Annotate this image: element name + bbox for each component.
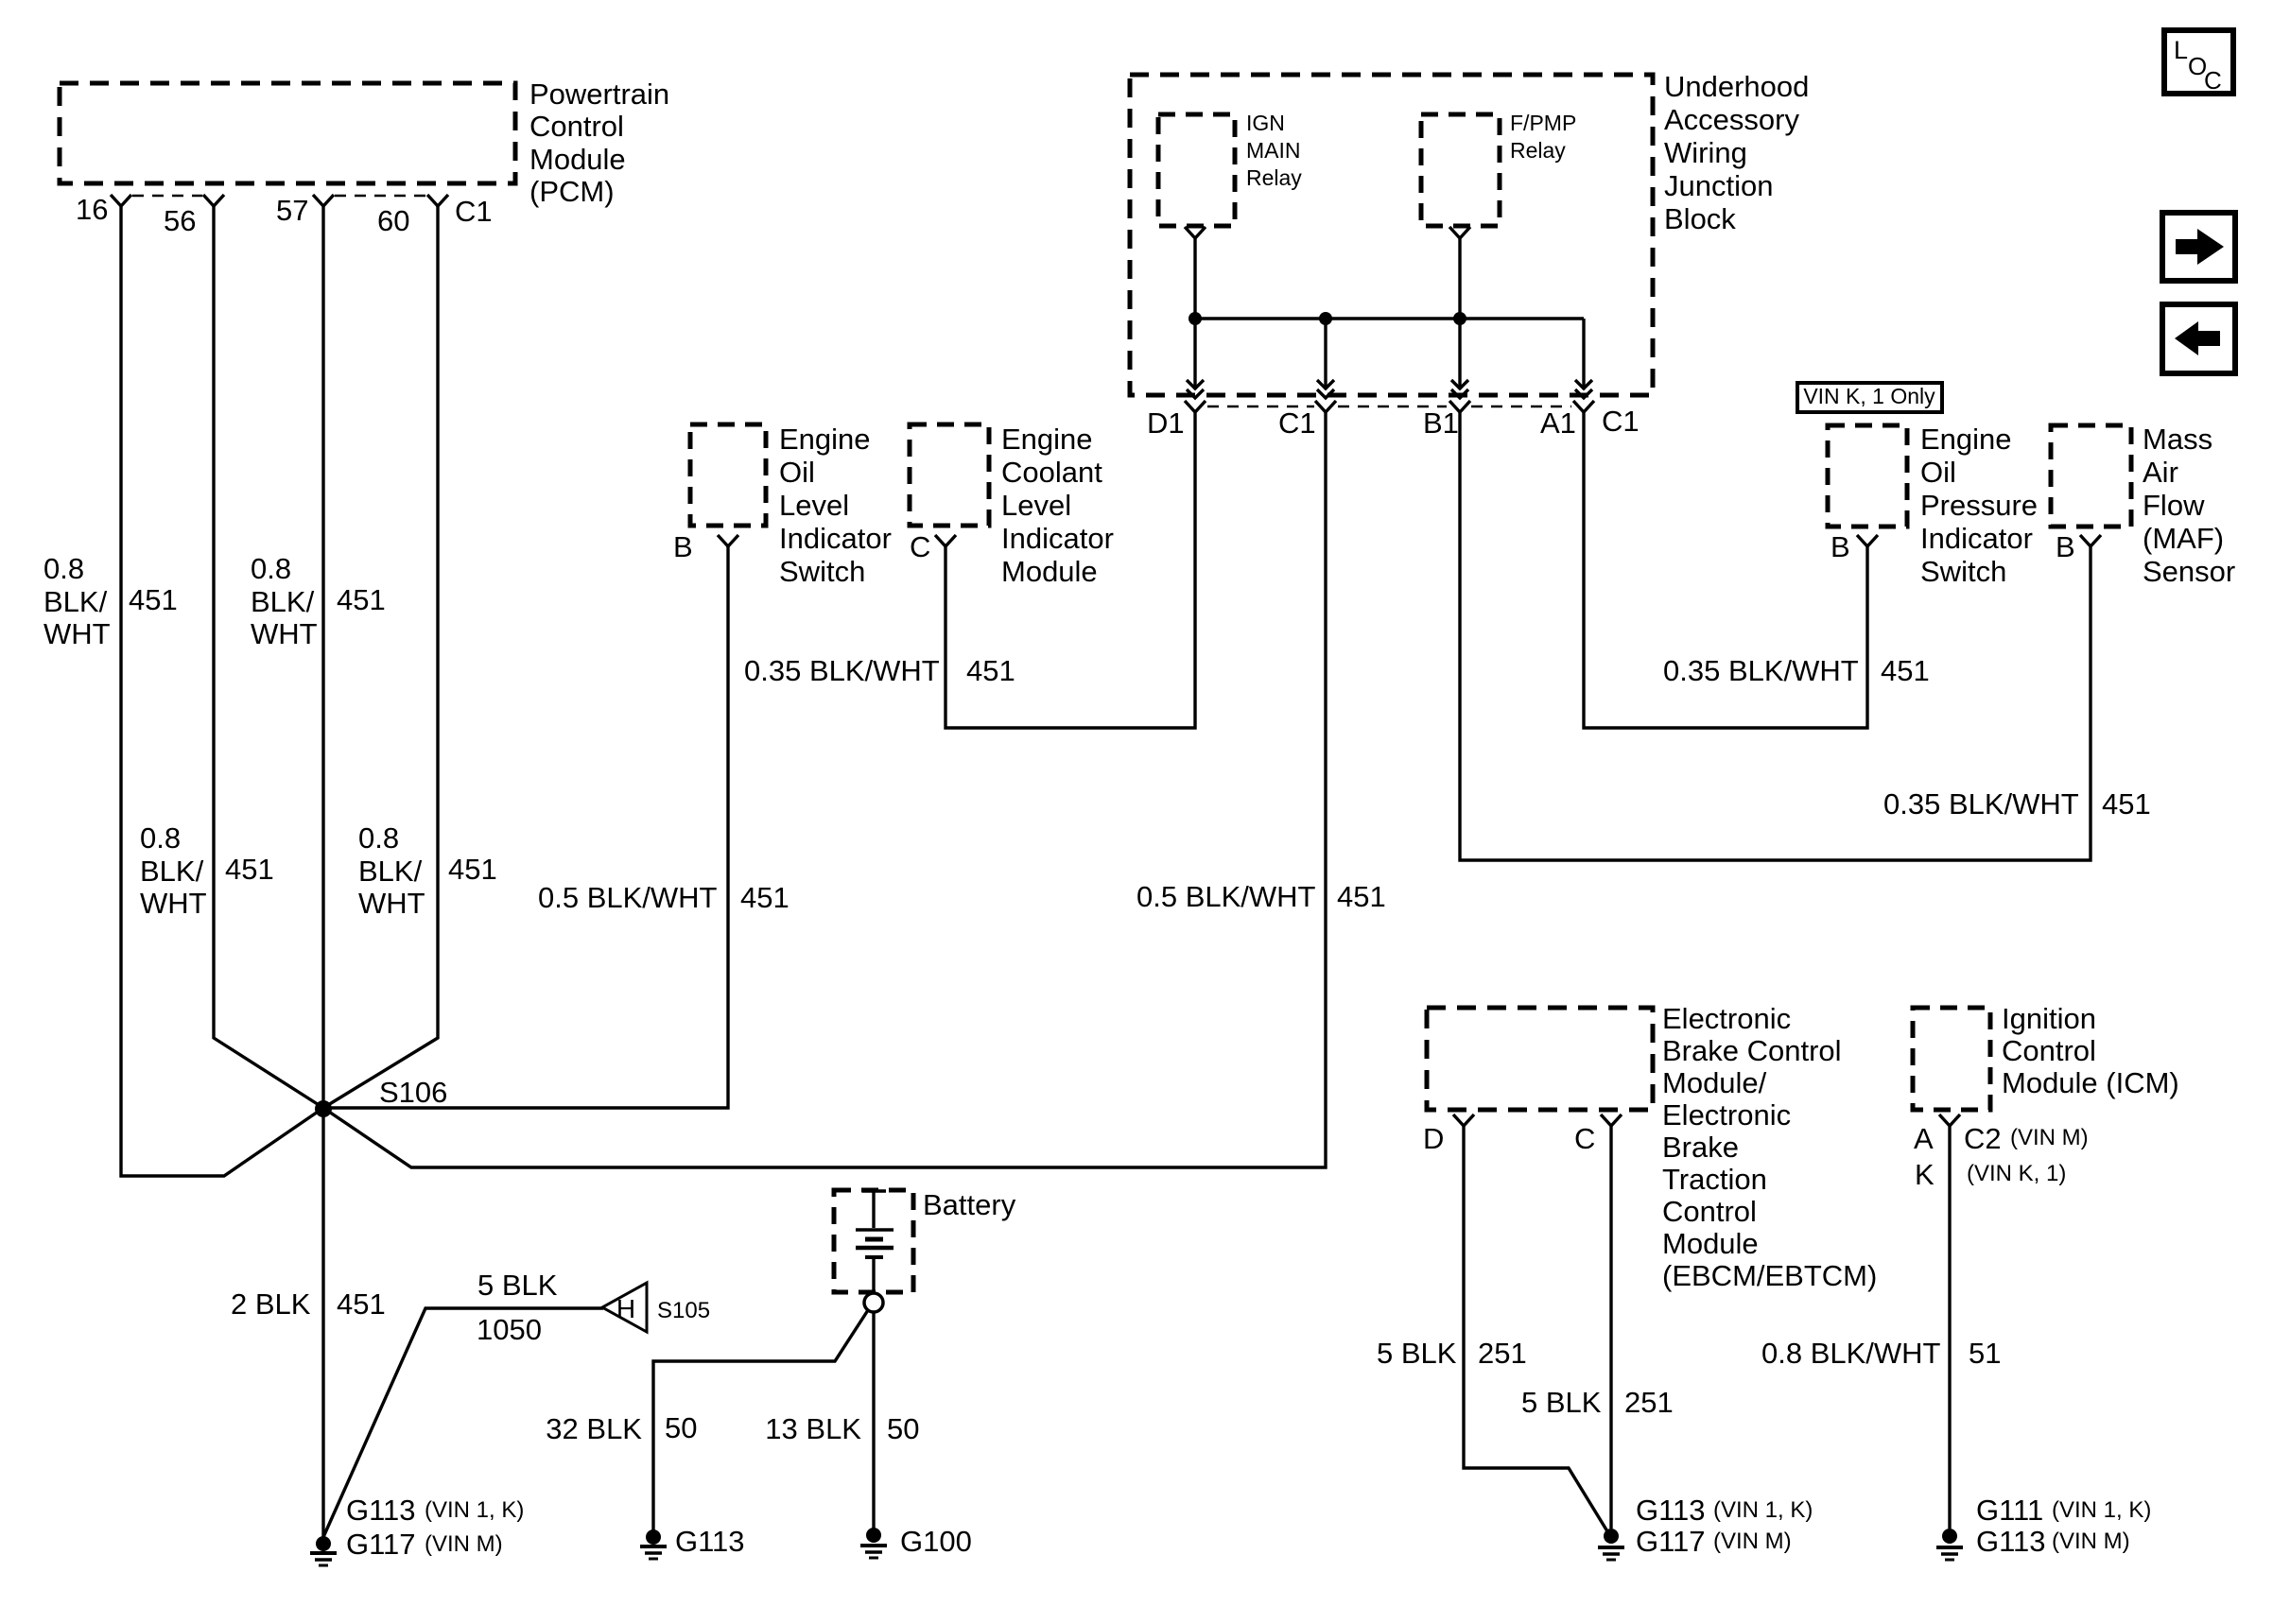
label UHJB name [1664, 70, 1809, 235]
pin C Y connector (coolant module) [935, 535, 956, 546]
label VIN K, 1 Only box [1797, 383, 1942, 412]
pin Y connector IGN MAIN relay [1185, 227, 1206, 238]
label Mass Air Flow (MAF) Sensor [2143, 423, 2235, 588]
wire label 0.8 BLK/WHT 51 (ICM) [1761, 1337, 2001, 1370]
wire label 5 BLK 251 (EBCM C) [1521, 1386, 1674, 1419]
wire battery negative to ground G113 (32 BLK 50) [653, 1310, 868, 1530]
svg-text:57: 57 [276, 194, 308, 227]
svg-text:5 BLK: 5 BLK [1521, 1386, 1602, 1419]
svg-text:BLK/: BLK/ [140, 855, 204, 888]
svg-text:0.8: 0.8 [140, 821, 181, 855]
svg-text:2 BLK: 2 BLK [231, 1287, 311, 1321]
svg-text:BLK/: BLK/ [251, 585, 315, 618]
svg-text:5 BLK: 5 BLK [477, 1269, 558, 1302]
wire S106 ground lead to S105 splice (5 BLK 1050) [323, 1308, 603, 1537]
svg-text:G113: G113 [1976, 1525, 2046, 1558]
svg-text:A1: A1 [1540, 406, 1576, 440]
svg-text:D: D [1423, 1122, 1444, 1155]
svg-text:Sensor: Sensor [2143, 555, 2235, 588]
svg-text:Level: Level [779, 489, 849, 522]
svg-text:Block: Block [1664, 202, 1736, 235]
junction dot bus at C1 drop [1319, 312, 1332, 325]
svg-text:G117: G117 [346, 1528, 416, 1561]
wire label 0.35 BLK/WHT 451 (coolant) [744, 654, 1015, 687]
label IGN MAIN Relay [1246, 111, 1302, 190]
svg-text:D1: D1 [1147, 406, 1185, 440]
symbol left arrow box [2162, 304, 2235, 373]
pin B Y connector (oil level switch) [718, 535, 738, 546]
wire label 0.8 BLK/WHT (pin 60) [358, 821, 425, 920]
pin B1 Y connector [1449, 401, 1470, 412]
svg-text:(VIN 1, K): (VIN 1, K) [425, 1497, 524, 1523]
wire PCM pin 57 through S106 to ground G113/G117 (2 BLK 451) [321, 206, 324, 1536]
svg-text:Flow: Flow [2143, 489, 2205, 522]
svg-text:H: H [616, 1294, 635, 1323]
svg-text:32 BLK: 32 BLK [546, 1412, 642, 1445]
svg-text:Module: Module [1662, 1227, 1759, 1260]
label PCM name [529, 78, 669, 208]
component IGN MAIN Relay dashed box [1158, 114, 1235, 226]
svg-text:C2: C2 [1964, 1122, 2002, 1155]
wire S106 to Engine Oil Level Indicator Switch pin B (0.5 BLK/WHT 451) [323, 546, 728, 1108]
svg-text:51: 51 [1969, 1337, 2001, 1370]
wire PCM pin 56 to S106 [214, 206, 323, 1108]
component F/PMP Relay dashed box [1421, 114, 1500, 226]
splice S105 triangle [602, 1283, 647, 1332]
svg-text:(VIN M): (VIN M) [2010, 1125, 2089, 1150]
wire Engine Coolant Level Indicator Module pin C to junction block D1 (0.35 BLK/WHT 451) [946, 412, 1195, 728]
pin 56 Y connector [203, 195, 224, 206]
svg-text:G113: G113 [1636, 1494, 1706, 1527]
svg-text:56: 56 [164, 204, 196, 237]
svg-text:A: A [1914, 1122, 1934, 1155]
svg-text:Pressure: Pressure [1920, 489, 2038, 522]
wire label 32 BLK 50 [546, 1411, 697, 1445]
svg-text:251: 251 [1478, 1337, 1527, 1370]
svg-text:451: 451 [2102, 787, 2151, 821]
svg-text:Relay: Relay [1246, 165, 1302, 190]
svg-text:451: 451 [1337, 880, 1386, 913]
svg-text:F/PMP: F/PMP [1510, 111, 1576, 135]
component Underhood Accessory Wiring Junction Block dashed box [1130, 75, 1653, 395]
svg-text:BLK/: BLK/ [358, 855, 423, 888]
svg-text:C1: C1 [1278, 406, 1316, 440]
wire S106 to junction block C1 (0.5 BLK/WHT 451) [323, 412, 1326, 1167]
ground label G113 (VIN 1, K) at S106 [346, 1494, 524, 1527]
svg-text:WHT: WHT [251, 617, 318, 650]
wire label 0.5 BLK/WHT 451 (oil level) [538, 881, 789, 914]
junction dot bus at IGN drop [1189, 312, 1202, 325]
wire label 0.35 BLK/WHT 451 (oil pressure) [1663, 654, 1930, 687]
label EBCM name [1662, 1002, 1877, 1292]
svg-text:G117: G117 [1636, 1525, 1706, 1558]
battery negative terminal circle [864, 1293, 883, 1312]
svg-text:(VIN 1, K): (VIN 1, K) [1713, 1497, 1813, 1523]
component EBCM/EBTCM dashed box [1427, 1008, 1653, 1110]
svg-text:Junction: Junction [1664, 169, 1773, 202]
svg-text:5 BLK: 5 BLK [1377, 1337, 1457, 1370]
svg-text:Switch: Switch [779, 555, 865, 588]
svg-text:451: 451 [337, 583, 386, 616]
arrow into D1 [1187, 380, 1204, 398]
svg-text:451: 451 [966, 654, 1015, 687]
svg-text:Engine: Engine [779, 423, 871, 456]
svg-text:Coolant: Coolant [1001, 456, 1102, 489]
svg-text:B: B [1831, 530, 1850, 563]
svg-text:S106: S106 [379, 1076, 447, 1109]
svg-text:C: C [1574, 1122, 1595, 1155]
ground G113 below 32 BLK [640, 1529, 667, 1559]
svg-text:Wiring: Wiring [1664, 136, 1747, 169]
svg-text:C1: C1 [455, 195, 493, 228]
svg-text:50: 50 [887, 1412, 919, 1445]
ground G100 below battery [860, 1528, 887, 1558]
svg-text:Brake Control: Brake Control [1662, 1034, 1842, 1067]
svg-text:Battery: Battery [923, 1188, 1016, 1221]
label ICM name [2002, 1002, 2179, 1099]
svg-text:(VIN M): (VIN M) [1713, 1529, 1792, 1554]
svg-text:VIN K, 1 Only: VIN K, 1 Only [1803, 384, 1935, 408]
wire label 0.35 BLK/WHT 451 (MAF) [1883, 787, 2151, 821]
node S106 splice dot [315, 1100, 332, 1117]
svg-text:0.5 BLK/WHT: 0.5 BLK/WHT [1136, 880, 1316, 913]
svg-text:13 BLK: 13 BLK [765, 1412, 861, 1445]
label Engine Coolant Level Indicator Module [1001, 423, 1114, 588]
svg-text:451: 451 [225, 853, 274, 886]
svg-text:451: 451 [448, 853, 497, 886]
svg-text:Module (ICM): Module (ICM) [2002, 1066, 2179, 1099]
wire label 0.8 BLK/WHT (pin 57) [251, 552, 318, 650]
pin C1 Y connector (junction block) [1315, 401, 1336, 412]
svg-text:251: 251 [1624, 1386, 1674, 1419]
wire PCM pin 16 to S106 [121, 206, 323, 1176]
component Powertrain Control Module (PCM) dashed box [60, 83, 515, 183]
wire bus drop to C1 [1324, 319, 1327, 389]
svg-text:Brake: Brake [1662, 1131, 1739, 1164]
wire EBCM pin D to ground (5 BLK 251) [1464, 1126, 1607, 1531]
svg-text:451: 451 [337, 1287, 386, 1321]
svg-text:(VIN M): (VIN M) [425, 1531, 503, 1557]
wire label 2 BLK 451 [231, 1287, 386, 1321]
svg-text:IGN: IGN [1246, 111, 1285, 135]
svg-text:0.8: 0.8 [251, 552, 291, 585]
svg-text:C1: C1 [1602, 405, 1640, 438]
pin 57 Y connector [313, 195, 334, 206]
svg-text:(MAF): (MAF) [2143, 522, 2224, 555]
svg-text:Control: Control [1662, 1195, 1757, 1228]
svg-text:0.8: 0.8 [43, 552, 84, 585]
pin Y connector F/PMP relay [1449, 227, 1470, 238]
pin A1/C1 Y connector [1573, 401, 1594, 412]
wire ICM pin to ground (0.8 BLK/WHT 51) [1948, 1126, 1951, 1529]
svg-text:Powertrain: Powertrain [529, 78, 669, 111]
svg-text:0.35 BLK/WHT: 0.35 BLK/WHT [1883, 787, 2079, 821]
svg-text:1050: 1050 [477, 1313, 542, 1346]
ground label G117 (VIN M) at EBCM [1636, 1525, 1792, 1558]
svg-text:0.35 BLK/WHT: 0.35 BLK/WHT [744, 654, 940, 687]
connector line C1 under PCM (thin dashed) [132, 195, 427, 198]
svg-text:(VIN K, 1): (VIN K, 1) [1967, 1161, 2066, 1186]
svg-text:Level: Level [1001, 489, 1071, 522]
pin B Y connector (oil pressure switch) [1857, 535, 1878, 546]
label Engine Oil Pressure Indicator Switch [1920, 423, 2038, 588]
svg-text:Switch: Switch [1920, 555, 2006, 588]
svg-text:50: 50 [665, 1411, 697, 1444]
svg-text:B1: B1 [1423, 406, 1459, 440]
svg-text:Oil: Oil [1920, 456, 1956, 489]
ground label G111 (VIN 1, K) at ICM [1976, 1494, 2151, 1527]
wire PCM pin 60 to S106 [323, 206, 438, 1108]
svg-text:Electronic: Electronic [1662, 1002, 1791, 1035]
svg-text:(EBCM/EBTCM): (EBCM/EBTCM) [1662, 1259, 1877, 1292]
wire label 0.8 BLK/WHT (pin 16) [43, 552, 111, 650]
component Engine Oil Pressure Indicator Switch dashed box [1828, 425, 1907, 527]
symbol right arrow box [2162, 213, 2235, 281]
component Mass Air Flow (MAF) Sensor dashed box [2051, 425, 2131, 527]
arrow into B1 [1451, 380, 1468, 398]
svg-text:Indicator: Indicator [1920, 522, 2033, 555]
svg-text:451: 451 [1881, 654, 1930, 687]
wire IGN MAIN relay drop to D1 [1193, 238, 1196, 389]
wire label 0.8 BLK/WHT (pin 56) [140, 821, 207, 920]
svg-text:Mass: Mass [2143, 423, 2212, 456]
svg-text:Indicator: Indicator [779, 522, 892, 555]
wire junction block B1 to MAF Sensor pin B (0.35 BLK/WHT 451) [1460, 412, 2091, 860]
svg-text:Electronic: Electronic [1662, 1098, 1791, 1132]
svg-text:G113: G113 [675, 1525, 745, 1558]
svg-text:Indicator: Indicator [1001, 522, 1114, 555]
pin A/K Y connector (ICM) [1939, 1114, 1960, 1126]
label F/PMP Relay [1510, 111, 1576, 163]
wire label 0.5 BLK/WHT 451 (C1) [1136, 880, 1386, 913]
wire label 5 BLK 1050 [477, 1269, 558, 1346]
svg-text:Control: Control [2002, 1034, 2096, 1067]
component Battery dashed box [834, 1190, 913, 1292]
svg-text:C: C [2204, 66, 2222, 95]
ground label G113 (VIN M) at ICM [1976, 1525, 2130, 1558]
svg-text:451: 451 [129, 583, 178, 616]
wire bus drop to A1 [1582, 319, 1585, 389]
arrow into C1 [1317, 380, 1334, 398]
pin B Y connector (MAF sensor) [2080, 535, 2101, 546]
svg-text:16: 16 [76, 193, 108, 226]
svg-text:Module/: Module/ [1662, 1066, 1767, 1099]
svg-text:Control: Control [529, 110, 624, 143]
pin 60 Y connector [427, 195, 448, 206]
svg-text:G100: G100 [900, 1525, 972, 1558]
svg-text:G111: G111 [1976, 1494, 2043, 1527]
svg-text:(VIN 1, K): (VIN 1, K) [2052, 1497, 2151, 1523]
label Engine Oil Level Indicator Switch [779, 423, 892, 588]
svg-text:K: K [1915, 1158, 1935, 1191]
ground G111/G113 below ICM [1936, 1529, 1963, 1560]
wire F/PMP relay drop to B1 [1458, 238, 1461, 389]
svg-text:Module: Module [529, 143, 626, 176]
svg-text:Air: Air [2143, 456, 2178, 489]
svg-text:Traction: Traction [1662, 1163, 1767, 1196]
ground G113/G117 below EBCM [1598, 1529, 1624, 1560]
svg-text:Engine: Engine [1920, 423, 2012, 456]
wire internal bus of junction block [1195, 317, 1584, 320]
svg-text:0.8: 0.8 [358, 821, 399, 855]
svg-text:451: 451 [740, 881, 789, 914]
battery symbol [856, 1191, 894, 1293]
svg-text:Module: Module [1001, 555, 1098, 588]
svg-text:BLK/: BLK/ [43, 585, 108, 618]
pin 16 Y connector [111, 195, 131, 206]
svg-text:B: B [2056, 530, 2075, 563]
ground label G113 (VIN 1, K) at EBCM [1636, 1494, 1813, 1527]
connector line under junction block (thin dashed) [1207, 406, 1571, 408]
svg-text:0.5 BLK/WHT: 0.5 BLK/WHT [538, 881, 718, 914]
svg-text:G113: G113 [346, 1494, 416, 1527]
ground label G117 (VIN M) at S106 [346, 1528, 503, 1561]
svg-text:WHT: WHT [43, 617, 111, 650]
ground G113/G117 below S106 [310, 1536, 337, 1565]
svg-text:Oil: Oil [779, 456, 815, 489]
component Engine Oil Level Indicator Switch dashed box [690, 424, 766, 526]
svg-text:0.8 BLK/WHT: 0.8 BLK/WHT [1761, 1337, 1941, 1370]
svg-text:(PCM): (PCM) [529, 175, 615, 208]
svg-text:WHT: WHT [358, 887, 425, 920]
svg-text:B: B [673, 530, 693, 563]
svg-text:MAIN: MAIN [1246, 138, 1301, 163]
svg-text:(VIN M): (VIN M) [2052, 1529, 2130, 1554]
component Ignition Control Module (ICM) dashed box [1913, 1008, 1990, 1110]
symbol LOC box [2164, 30, 2233, 95]
svg-text:Engine: Engine [1001, 423, 1093, 456]
wire junction block A1 to Engine Oil Pressure Indicator Switch pin B (0.35 BLK/WHT 451) [1584, 412, 1867, 728]
component Engine Coolant Level Indicator Module dashed box [910, 424, 989, 526]
svg-text:Ignition: Ignition [2002, 1002, 2096, 1035]
wire battery negative to ground G100 (13 BLK 50) [872, 1312, 875, 1529]
pin C Y connector (EBCM) [1601, 1114, 1622, 1126]
svg-text:60: 60 [377, 204, 409, 237]
svg-text:0.35 BLK/WHT: 0.35 BLK/WHT [1663, 654, 1859, 687]
svg-text:L: L [2174, 36, 2188, 64]
arrow into A1 [1575, 380, 1592, 398]
wire EBCM pin C to ground (5 BLK 251) [1609, 1126, 1612, 1529]
pin D Y connector (EBCM) [1453, 1114, 1474, 1126]
wire label 5 BLK 251 (EBCM D) [1377, 1337, 1527, 1370]
svg-text:Underhood: Underhood [1664, 70, 1809, 103]
junction dot bus at F/PMP drop [1453, 312, 1466, 325]
svg-text:Relay: Relay [1510, 138, 1566, 163]
svg-text:Accessory: Accessory [1664, 103, 1799, 136]
wire label 13 BLK 50 [765, 1412, 919, 1445]
svg-text:S105: S105 [657, 1298, 710, 1323]
svg-text:WHT: WHT [140, 887, 207, 920]
svg-text:C: C [910, 530, 930, 563]
pin D1 Y connector [1185, 401, 1206, 412]
